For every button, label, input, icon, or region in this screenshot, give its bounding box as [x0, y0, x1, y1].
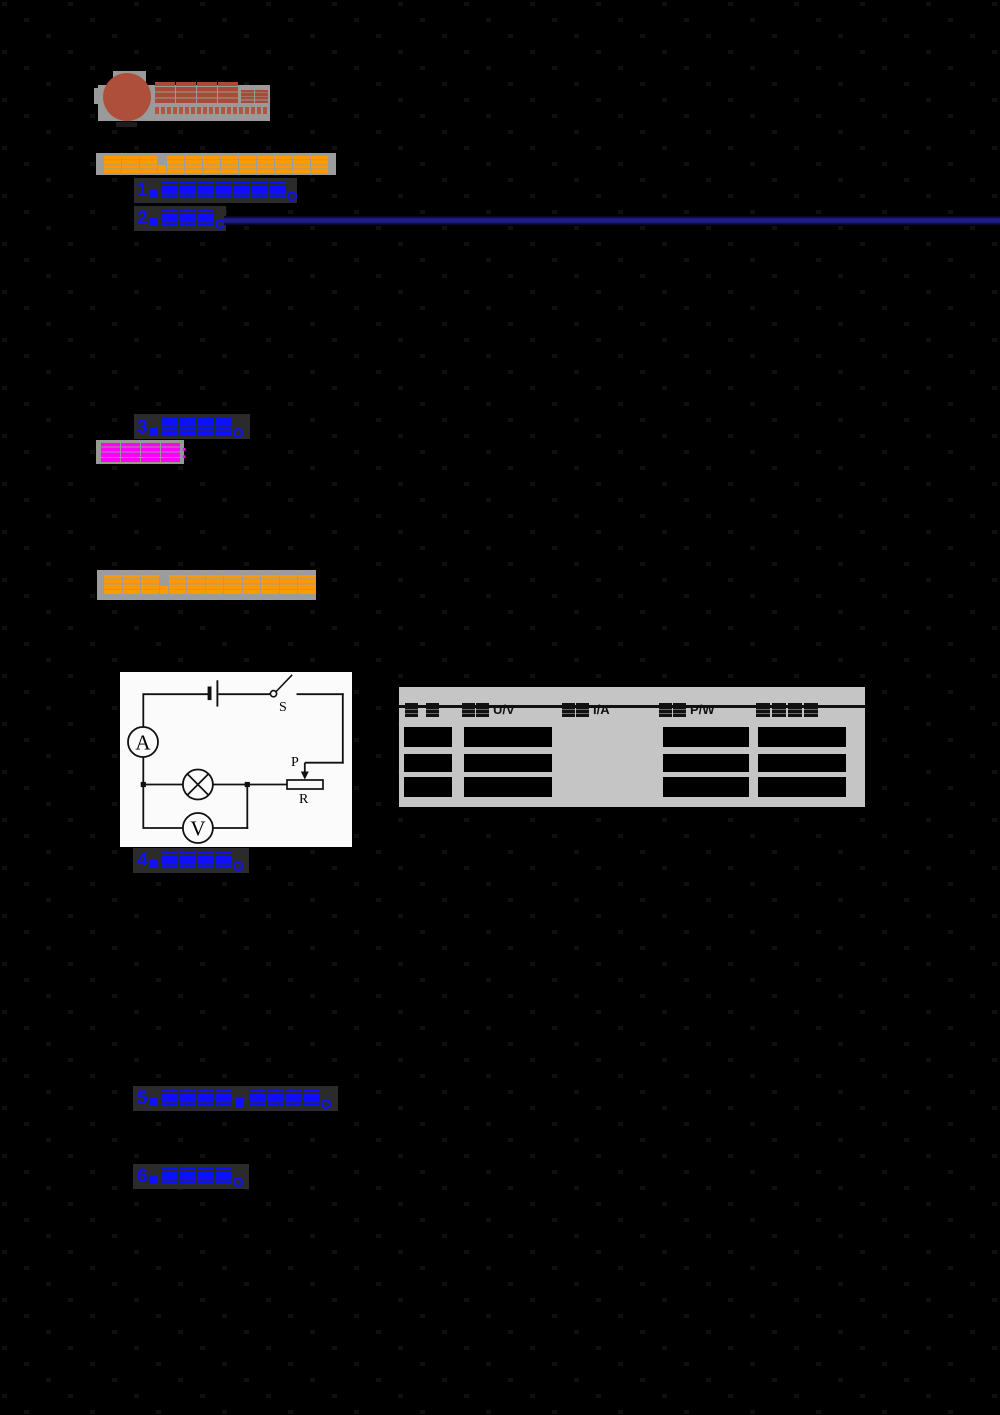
- circuit white background: [120, 672, 352, 847]
- svg-text:A: A: [135, 731, 151, 755]
- header 发光情况: [756, 703, 818, 717]
- rheostat arm arrowhead: [301, 772, 309, 780]
- voltmeter circle: [183, 813, 213, 843]
- table header rule: [399, 705, 865, 708]
- lamp cross stroke 2: [187, 774, 208, 795]
- cell r1c4: [663, 727, 749, 747]
- wire right vertical: [342, 693, 344, 763]
- ammeter circle: [128, 727, 158, 757]
- svg-text:P: P: [291, 755, 299, 770]
- wire step to rheostat arm: [305, 762, 344, 764]
- wire lamp to left vertical: [143, 784, 183, 786]
- cell r1c2: [464, 727, 552, 747]
- lamp circle: [183, 770, 213, 800]
- logo gray patch top bump: [113, 71, 146, 86]
- wire junction vertical: [246, 785, 248, 829]
- logo red circle: [103, 73, 151, 121]
- cell r2c1: [404, 754, 452, 772]
- switch S lever: [276, 675, 292, 692]
- junction node right: [245, 782, 250, 787]
- circuit diagram image: [120, 672, 352, 847]
- wire voltmeter to junction: [213, 827, 248, 829]
- cell r1c5: [758, 727, 846, 747]
- blue item 1 dark band: [134, 178, 297, 203]
- wire top left: [143, 693, 208, 695]
- logo gray patch left: [94, 88, 104, 104]
- logo small characters 网校: [241, 90, 268, 103]
- header 电流 I/A: [562, 703, 610, 717]
- blue item 5 text 5、数据分析，总结结论。: [137, 1089, 331, 1109]
- heading band 2: [97, 570, 316, 600]
- magenta band: [96, 440, 184, 464]
- blue item 2 text 2、保险丝。: [137, 209, 225, 229]
- data table: [399, 687, 865, 807]
- blue item 3 text 3、安全用电。: [137, 418, 243, 438]
- logo chinese characters 北京四中: [155, 82, 238, 103]
- cell r2c4: [663, 754, 749, 772]
- resistor R body: [287, 780, 323, 789]
- header 功率 P/W: [659, 703, 715, 717]
- cell r3c1: [404, 777, 452, 797]
- wire rheostat to lamp: [213, 784, 287, 786]
- blue item 5 dark band: [133, 1086, 338, 1111]
- blue item 4 text 4、实验步骤。: [137, 851, 243, 871]
- wire battery to switch: [218, 693, 270, 695]
- header 电压 U/V: [462, 703, 515, 717]
- junction node left: [141, 782, 146, 787]
- blue item 6 text 6、注意事项。: [137, 1167, 243, 1187]
- blue item 4 dark band: [133, 848, 249, 873]
- logo url text www.etiantian.com: [155, 107, 267, 114]
- wire bottom left: [143, 827, 183, 829]
- wire switch to right: [297, 693, 344, 695]
- switch S pivot circle: [270, 691, 276, 697]
- cell r2c2: [464, 754, 552, 772]
- lamp cross stroke 1: [187, 774, 208, 795]
- svg-text:S: S: [279, 700, 287, 715]
- logo gray patch main: [98, 85, 270, 121]
- blue item 2 dark band: [134, 206, 226, 231]
- battery long plate: [216, 680, 218, 706]
- logo dark strip under circle: [116, 122, 137, 127]
- wire left vertical lower: [142, 757, 144, 829]
- wire left vertical upper: [142, 693, 144, 727]
- header 次数: [405, 703, 439, 717]
- blue item 1 text 1、家庭电路的组成。: [137, 181, 297, 201]
- blue item 6 dark band: [133, 1164, 249, 1189]
- battery short plate: [208, 687, 212, 701]
- magenta text 要点诠释：: [101, 443, 187, 462]
- svg-text:R: R: [299, 792, 309, 807]
- cell r3c2: [464, 777, 552, 797]
- heading 2 orange text 考点五、测量小灯泡电功率: [104, 575, 316, 594]
- cell r2c5: [758, 754, 846, 772]
- heading 1 orange text 考点四、家庭电路和安全用电: [104, 156, 328, 173]
- heading band 1: [96, 153, 336, 175]
- rheostat arm vertical: [304, 763, 306, 773]
- svg-text:V: V: [190, 817, 205, 841]
- cell r3c4: [663, 777, 749, 797]
- cell r3c5: [758, 777, 846, 797]
- navy fill-in rule line: [224, 216, 1000, 225]
- blue item 3 dark band: [134, 414, 250, 439]
- cell r1c1: [404, 727, 452, 747]
